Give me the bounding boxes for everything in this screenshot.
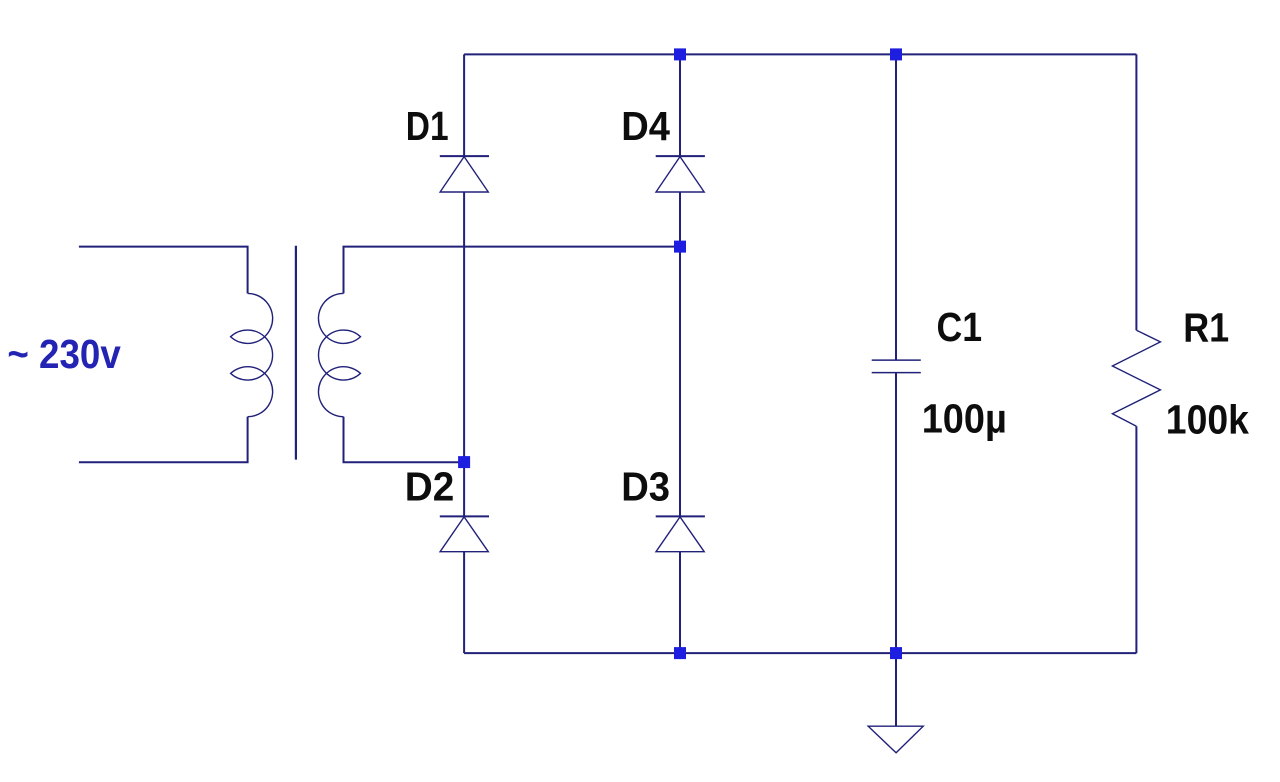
- resistor R1: [1112, 330, 1160, 426]
- node junction top rail / C1 branch: [890, 48, 902, 60]
- node junction secondary bottom / D1-D2 branch: [458, 456, 470, 468]
- svg-text:D1: D1: [406, 103, 449, 149]
- transformer secondary winding: [318, 293, 360, 416]
- ground: [868, 726, 923, 753]
- node junction bottom rail / ground: [890, 647, 902, 659]
- wire primary bottom lead: [79, 417, 248, 463]
- wire D1 branch upper: [463, 54, 465, 156]
- wire D4-D3 branch middle: [679, 192, 681, 516]
- wire C1 branch upper: [895, 54, 897, 360]
- wire ground lead: [895, 653, 897, 726]
- wire D1-D2 branch middle: [463, 192, 465, 516]
- svg-text:~ 230v: ~ 230v: [7, 331, 121, 377]
- wire bottom rail: [464, 652, 1136, 654]
- svg-text:100k: 100k: [1166, 396, 1249, 442]
- wire secondary bottom lead: [344, 417, 465, 463]
- svg-text:100µ: 100µ: [922, 396, 1007, 442]
- svg-text:D2: D2: [405, 463, 455, 509]
- node junction secondary top / D4-D3 branch: [674, 241, 686, 253]
- diode D4: [656, 156, 705, 192]
- capacitor C1: [872, 360, 921, 373]
- wire D4 branch upper: [679, 54, 681, 156]
- transformer primary winding: [231, 293, 273, 416]
- svg-text:R1: R1: [1183, 304, 1229, 350]
- svg-text:C1: C1: [937, 304, 983, 350]
- wire primary top lead: [79, 247, 248, 294]
- wire C1 branch lower: [895, 373, 897, 653]
- wire D2 branch lower: [463, 552, 465, 653]
- transformer core: [295, 246, 297, 460]
- wire R1 branch lower: [1135, 426, 1137, 653]
- diode D3: [656, 516, 705, 551]
- node junction top rail / D4 branch: [674, 48, 686, 60]
- wire secondary top lead: [344, 247, 681, 294]
- wire R1 branch upper: [1135, 54, 1137, 330]
- wire top rail: [464, 53, 1136, 55]
- diode D2: [440, 516, 489, 551]
- wire D3 branch lower: [679, 552, 681, 653]
- node junction bottom rail / D3 branch: [674, 647, 686, 659]
- svg-text:D3: D3: [621, 463, 670, 509]
- svg-text:D4: D4: [621, 103, 670, 149]
- diode D1: [440, 156, 489, 192]
